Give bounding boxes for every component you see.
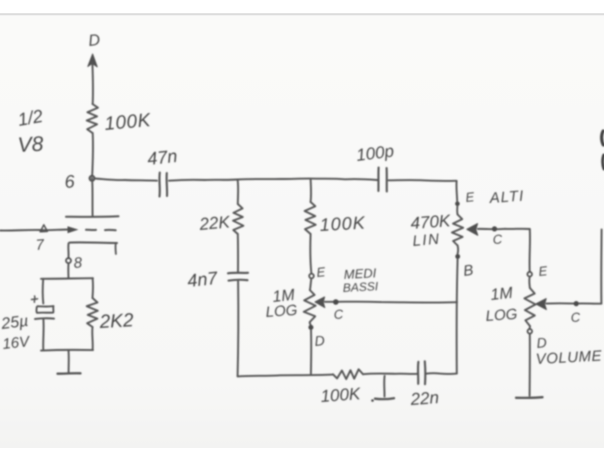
svg-text:1/2: 1/2 [16, 106, 44, 130]
svg-text:1M: 1M [490, 285, 515, 304]
svg-text:LOG: LOG [485, 306, 518, 325]
svg-text:470K: 470K [410, 211, 452, 233]
svg-text:C: C [333, 306, 344, 322]
svg-text:C: C [570, 309, 581, 325]
svg-text:2K2: 2K2 [98, 310, 134, 333]
svg-text:4n7: 4n7 [186, 268, 219, 291]
svg-text:100K: 100K [320, 384, 362, 406]
svg-text:BASSI: BASSI [342, 279, 379, 295]
svg-text:LOG: LOG [265, 302, 298, 321]
svg-text:LIN: LIN [412, 231, 441, 250]
svg-text:25µ: 25µ [0, 313, 29, 333]
svg-text:V8: V8 [17, 133, 44, 157]
svg-text:D: D [314, 332, 325, 349]
svg-text:47n: 47n [146, 146, 178, 169]
svg-text:16V: 16V [2, 333, 32, 353]
svg-text:100K: 100K [319, 213, 366, 235]
svg-text:D: D [536, 334, 547, 351]
svg-text:ALTI: ALTI [488, 188, 525, 207]
svg-text:C: C [492, 231, 503, 247]
svg-text:22K: 22K [198, 212, 231, 234]
svg-text:22n: 22n [409, 388, 440, 409]
svg-text:100K: 100K [104, 110, 153, 135]
svg-text:D: D [88, 32, 102, 50]
svg-text:VOLUME: VOLUME [535, 348, 603, 368]
